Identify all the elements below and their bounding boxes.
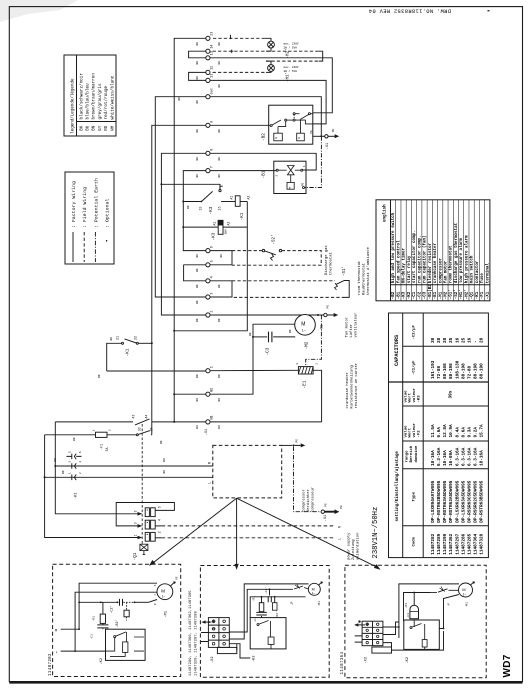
svg-text:fuse: fuse: [480, 273, 485, 284]
svg-text:88-198: 88-198: [461, 363, 466, 379]
svg-text:11487282: 11487282: [49, 653, 53, 676]
svg-text:BK: BK: [218, 84, 221, 88]
svg-text:18-16A: 18-16A: [431, 450, 436, 466]
svg-text:8.6A: 8.6A: [461, 427, 466, 438]
svg-text:72-88: 72-88: [467, 365, 472, 379]
svg-text:10-16A: 10-16A: [443, 450, 448, 466]
box3 motor M1: [459, 581, 476, 597]
wire N to compressor box: [55, 465, 213, 467]
svg-text:-R2': -R2': [115, 620, 119, 628]
wire N2 row: [174, 393, 206, 395]
svg-text:crankcase heater: crankcase heater: [433, 243, 438, 284]
svg-text:2: 2: [314, 363, 318, 365]
svg-text:2: 2: [157, 531, 161, 533]
box2 wiring: [229, 584, 308, 639]
PE earth run fan to E1 case: [306, 315, 322, 367]
svg-text:Code: Code: [412, 536, 417, 546]
svg-text:16-09A: 16-09A: [449, 450, 454, 466]
box3 terminal block X2: [362, 621, 391, 653]
svg-text:DP-LSXR94A97W095: DP-LSXR94A97W095: [431, 480, 436, 523]
svg-text:DP-RSSR63C5DW095: DP-RSSR63C5DW095: [467, 480, 472, 523]
svg-text:L: L: [338, 538, 342, 540]
svg-text:16: 16: [218, 207, 222, 211]
box2 lower bus wires: [229, 644, 250, 658]
arrow to detail box 1: [149, 498, 237, 566]
svg-text:DP-RSTR62B5DW095: DP-RSTR62B5DW095: [437, 480, 442, 523]
wire rows 6-5 right jumper V232: [210, 251, 232, 265]
supply line L dashed: [162, 537, 335, 539]
svg-text:compressor: compressor: [439, 258, 443, 284]
svg-text:7: 7: [211, 166, 215, 168]
svg-text:2: 2: [211, 310, 215, 312]
svg-text:thermostat d'ambiance: thermostat d'ambiance: [366, 246, 371, 295]
line legend entries text: [71, 178, 111, 228]
svg-text:L: L: [56, 650, 58, 654]
svg-text:terminal: terminal: [485, 263, 490, 284]
wire row 9 to B2 left pin: [210, 124, 270, 126]
svg-text:fan motor: fan motor: [443, 260, 448, 283]
svg-text:11487282: 11487282: [431, 533, 436, 554]
svg-text:P: P: [298, 137, 300, 140]
svg-text:-M1: -M1: [165, 611, 169, 617]
svg-text:BK: BK: [218, 174, 221, 178]
svg-text:range: range: [404, 450, 409, 463]
svg-text:N: N: [207, 462, 211, 464]
svg-text:high pressure alarm: high pressure alarm: [464, 235, 469, 283]
svg-text:start relay: start relay: [407, 255, 412, 283]
svg-text:BK: BK: [196, 254, 199, 258]
svg-text:BK: BK: [98, 374, 101, 378]
svg-text:3: 3: [68, 461, 72, 463]
box1 capacitor C1: [97, 623, 108, 629]
wire jumper 5-4: [184, 264, 206, 266]
svg-text:BU: BU: [218, 425, 221, 429]
svg-text:11: 11: [211, 74, 215, 78]
svg-text:4: 4: [78, 461, 82, 463]
svg-text:red/rot/rouge: red/rot/rouge: [104, 86, 109, 120]
svg-text:72-88: 72-88: [437, 365, 442, 379]
mechanical link dashed: [141, 424, 143, 544]
svg-text:238V1N~/50Hz: 238V1N~/50Hz: [372, 507, 380, 559]
svg-text:BK: BK: [196, 100, 199, 104]
wire row 8 to V161 down to row 2: [161, 153, 205, 315]
svg-text:: Potential Earth: : Potential Earth: [93, 178, 99, 228]
PE earth run compressor to X1: [294, 447, 321, 512]
box2 terminal block X2: [208, 618, 236, 654]
svg-text:-H2': -H2': [464, 289, 469, 299]
svg-text:-Q1: -Q1: [471, 291, 475, 299]
svg-text:12.8A: 12.8A: [443, 424, 448, 438]
svg-text:-E1: -E1: [434, 291, 438, 299]
box2 start relay K2: [250, 618, 286, 649]
tick mark row 23: [230, 35, 232, 39]
svg-text:-M2: -M2: [444, 291, 448, 299]
svg-text:2W / 5VA: 2W / 5VA: [284, 45, 298, 49]
svg-text:A2: A2: [246, 196, 250, 200]
svg-text:BK: BK: [196, 268, 199, 272]
detail box 2 outline: [200, 566, 329, 678]
svg-text:-K1: -K1: [240, 212, 245, 220]
svg-text:valeur: valeur: [412, 422, 417, 437]
svg-text:ON-delay timer: ON-delay timer: [402, 248, 407, 284]
svg-text:-K1: -K1: [476, 291, 480, 299]
plug contacts K1 pins 5/6 stub: [67, 454, 82, 460]
B2 internals: [270, 113, 313, 141]
X1 PE terminal at B2: [325, 135, 328, 138]
svg-text:valeur: valeur: [412, 387, 417, 402]
plug contact pins 1/2: [72, 475, 76, 481]
svg-text:-B2: -B2: [392, 291, 396, 299]
wire GNYE row to V155 down to row 3: [155, 97, 206, 297]
svg-text:2W / 5VA: 2W / 5VA: [284, 69, 298, 73]
svg-text:161-193: 161-193: [431, 360, 436, 379]
svg-text:BK: BK: [196, 157, 199, 161]
svg-text:A1: A1: [212, 222, 216, 226]
svg-text:BK: BK: [196, 300, 199, 304]
svg-text:GY: GY: [98, 125, 103, 131]
svg-text:room thermostat: room thermostat: [449, 245, 454, 283]
svg-text:-C1: -C1: [406, 613, 410, 619]
svg-text:BK: BK: [178, 97, 181, 101]
table data columns: [431, 337, 484, 554]
box1 motor M1: [157, 581, 176, 599]
svg-text:-Q1: -Q1: [133, 552, 138, 560]
svg-text:6.3-16A: 6.3-16A: [467, 447, 472, 466]
svg-text:-M1: -M1: [465, 602, 468, 608]
svg-text:6.3-16A: 6.3-16A: [437, 447, 442, 466]
svg-text:-B1: -B1: [397, 291, 401, 299]
supply line N dashed: [162, 525, 335, 527]
svg-text:11487285: 11487285: [467, 533, 472, 554]
legend entries: [391, 212, 490, 299]
relay contact K3 15/16: [183, 186, 235, 201]
svg-text:1: 1: [68, 472, 72, 474]
svg-text:11.5A: 11.5A: [431, 424, 436, 438]
svg-text:-R1: -R1: [251, 596, 255, 602]
X1 PE terminal at fan: [324, 313, 327, 316]
svg-text:3: 3: [134, 522, 138, 524]
wire jumper 14-13: [189, 51, 206, 58]
svg-text:-K1: -K1: [74, 493, 78, 499]
svg-text:4: 4: [157, 519, 161, 521]
svg-text:1~: 1~: [162, 594, 166, 598]
svg-text:fan speed control: fan speed control: [396, 240, 401, 283]
svg-text:bleeder resistor: bleeder resistor: [428, 243, 433, 284]
svg-text:1~: 1~: [312, 591, 316, 595]
svg-text:thermostat: thermostat: [329, 252, 334, 275]
svg-text:BN: BN: [218, 374, 221, 378]
svg-text:Bereich: Bereich: [409, 445, 414, 462]
box1 junction dots: [74, 601, 135, 652]
svg-text:BK: BK: [218, 157, 221, 161]
wire jumper 12-11: [189, 72, 206, 80]
svg-text:RD: RD: [104, 125, 109, 131]
svg-text:BK: BK: [218, 61, 221, 65]
svg-text:-X1: -X1: [326, 142, 330, 150]
line legend samples: [73, 232, 107, 262]
svg-text:PE: PE: [176, 576, 179, 580]
wire row 9 to V152 down to fuse line: [152, 125, 206, 435]
main switch Q1 input arrows: [138, 512, 143, 539]
svg-text:-C2: -C2: [418, 291, 422, 299]
svg-text:-C1: -C1: [90, 634, 93, 640]
svg-text:11487289: 11487289: [437, 533, 442, 554]
box3 start relay K2: [404, 620, 440, 649]
box3 X2 stub leads: [355, 636, 362, 642]
crankcase heater E1: [210, 367, 322, 422]
svg-text:3A: 3A: [105, 448, 109, 452]
svg-text:high and low pressure switch: high and low pressure switch: [391, 212, 396, 283]
svg-text:43: 43: [131, 415, 135, 419]
svg-text:28: 28: [437, 337, 442, 343]
svg-text:-B2: -B2: [262, 133, 267, 141]
wire row 7 to V183 down to row 6: [183, 171, 206, 251]
arrow to detail box 2: [235, 498, 239, 570]
svg-text:Raumthermostat: Raumthermostat: [361, 263, 366, 295]
svg-text:DP-LSXR63A5DW095: DP-LSXR63A5DW095: [461, 480, 466, 523]
legend column separators: [396, 200, 485, 301]
B1 internals: [276, 166, 304, 190]
wire N1 row left: [174, 421, 206, 423]
svg-text:alimentation: alimentation: [355, 533, 360, 560]
terminal number labels: [205, 32, 215, 436]
svg-text:-X1: -X1: [486, 291, 490, 299]
svg-text:BK: BK: [249, 332, 252, 336]
svg-text:BU: BU: [196, 425, 199, 429]
svg-text:12: 12: [211, 66, 215, 70]
svg-text:max. 230V: max. 230V: [284, 43, 299, 46]
svg-text:5: 5: [211, 260, 215, 262]
svg-text:N2: N2: [211, 388, 215, 392]
svg-text:-X1: -X1: [205, 428, 209, 436]
svg-text:1: 1: [295, 363, 299, 365]
svg-text:-F: -F: [290, 602, 294, 606]
box1 wiring: [61, 583, 158, 651]
svg-text:-B1(B2: -B1(B2: [428, 284, 433, 300]
svg-text:BU: BU: [196, 398, 199, 402]
svg-text:DP-LSXR62B5DW095: DP-LSXR62B5DW095: [455, 480, 460, 523]
svg-text:A2: A2: [227, 222, 231, 226]
contactor K1 contact 21/22: [107, 339, 152, 371]
svg-text:6: 6: [211, 246, 215, 248]
svg-text:1: 1: [92, 429, 96, 431]
svg-text:BK: BK: [289, 329, 292, 333]
svg-text:-K3: -K3: [417, 395, 421, 403]
signal lamp H2': [265, 38, 275, 51]
svg-text:-C1/µF: -C1/µF: [412, 360, 417, 375]
svg-text:PE: PE: [310, 130, 313, 134]
svg-text:108-130: 108-130: [455, 360, 460, 379]
box2 X2 stub leads: [201, 633, 208, 642]
svg-text:DRW. NO.118R8352 REV 04: DRW. NO.118R8352 REV 04: [369, 8, 451, 14]
svg-text:-C3: -C3: [424, 291, 428, 299]
svg-text:-F1: -F1: [481, 291, 485, 299]
svg-text:11487328: 11487328: [479, 533, 484, 554]
svg-text:BK: BK: [110, 337, 113, 341]
svg-text:BK: BK: [187, 205, 190, 209]
component legend table: [376, 200, 490, 301]
box3 wiring: [383, 584, 459, 650]
svg-text:11487364: 11487364: [473, 533, 478, 554]
svg-text:88-198: 88-198: [449, 363, 454, 379]
svg-text:-K2: -K2: [406, 657, 410, 663]
svg-text:: Optional: : Optional: [105, 199, 111, 228]
svg-text:-: -: [473, 340, 478, 343]
svg-text:9.3A: 9.3A: [467, 427, 472, 438]
fan speed control B1 box: [274, 161, 306, 193]
svg-text:1: 1: [302, 165, 306, 167]
svg-text:5: 5: [134, 510, 138, 512]
svg-text:WD7: WD7: [502, 654, 513, 677]
svg-text:16: 16: [455, 337, 460, 343]
svg-text:1~: 1~: [302, 329, 306, 333]
pressure switch B2 box: [269, 105, 313, 144]
svg-text:BK: BK: [196, 76, 199, 80]
svg-text:PE: PE: [324, 503, 328, 507]
svg-text:value: value: [403, 390, 408, 403]
wire row 2 to fan PE node: [210, 314, 324, 316]
svg-text:BK: BK: [79, 125, 84, 131]
box2 motor M1: [308, 581, 323, 595]
svg-text:BK: BK: [220, 254, 223, 258]
wire L to compressor box: [45, 476, 213, 478]
svg-text:P: P: [276, 137, 278, 140]
svg-text:power supply: power supply: [346, 532, 351, 560]
svg-text:39s: 39s: [449, 390, 454, 398]
svg-text:BK: BK: [62, 470, 65, 474]
svg-text:13: 13: [211, 51, 215, 55]
svg-text:domaine: domaine: [414, 445, 419, 462]
svg-text:BN: BN: [196, 374, 199, 378]
wire row 13 to B2: [210, 58, 332, 113]
svg-text:-X1: -X1: [324, 514, 328, 522]
detail box 1 outline: [53, 564, 181, 676]
svg-text:CAPACITORS: CAPACITORS: [394, 335, 400, 366]
svg-text:low pressure alarm: low pressure alarm: [459, 237, 464, 283]
timer coil K3: [183, 220, 247, 234]
svg-text:88-108: 88-108: [443, 363, 448, 379]
plug contact pins 3/4: [72, 463, 76, 469]
svg-text:15.7A: 15.7A: [479, 424, 484, 438]
svg-text:N: N: [338, 526, 342, 528]
svg-text:ventilateur: ventilateur: [354, 312, 359, 337]
svg-text:-E1: -E1: [303, 380, 308, 388]
svg-text:white/weiss/blanc: white/weiss/blanc: [110, 75, 115, 119]
svg-text:PE: PE: [331, 128, 335, 132]
Q1 trip unit: [140, 544, 148, 554]
svg-text:: Field Wiring: : Field Wiring: [82, 187, 88, 228]
svg-text:GNYE: GNYE: [211, 88, 214, 95]
svg-text:WH: WH: [110, 125, 115, 131]
thermostat S2' field circuit: [232, 251, 321, 266]
svg-text:compresseur: compresseur: [311, 487, 316, 512]
junction dots feeders: [54, 465, 56, 467]
svg-text:11487299: 11487299: [443, 533, 448, 554]
compressor PE branch: [282, 444, 293, 446]
svg-text:14: 14: [211, 45, 215, 49]
svg-text:15: 15: [199, 207, 203, 211]
svg-text:brown/braun/marron: brown/braun/marron: [92, 73, 97, 120]
svg-text:P: P: [289, 187, 291, 190]
svg-text:9: 9: [211, 121, 215, 123]
svg-text:1~: 1~: [463, 592, 467, 596]
svg-text:setting/Einstellung/ajustage: setting/Einstellung/ajustage: [395, 451, 400, 522]
svg-text:BK: BK: [160, 440, 163, 444]
svg-text:-R1: -R1: [404, 603, 408, 609]
fan motor M2: [295, 315, 316, 336]
svg-text:PE: PE: [295, 439, 299, 443]
wire N1 row right to E1 drop: [210, 421, 322, 423]
box2 capacitor C1: [256, 612, 267, 615]
svg-text:6: 6: [157, 506, 161, 508]
wire row 7 to B1 pin 2: [210, 170, 276, 172]
svg-text:start capacitor comp.: start capacitor comp.: [412, 230, 417, 283]
svg-text:black/schwarz/noir: black/schwarz/noir: [79, 73, 84, 120]
svg-text:-C3: -C3: [266, 347, 271, 355]
svg-text:BU: BU: [218, 398, 221, 402]
svg-text:Kurbelwannenheizung: Kurbelwannenheizung: [350, 365, 355, 408]
svg-text:1: 1: [134, 534, 138, 536]
box3 PTC R1 cylinder: [410, 605, 419, 619]
svg-text:6.3-16A: 6.3-16A: [473, 447, 478, 466]
svg-text:-X2: -X2: [211, 657, 215, 663]
box2 X2 arrow lead: [203, 621, 212, 623]
feeder vertical V56 N1 to Q1: [55, 422, 137, 514]
svg-text:44: 44: [145, 415, 149, 419]
wire row 8 to B1 pin 1: [210, 153, 316, 170]
svg-text:main switch: main switch: [470, 255, 475, 283]
svg-text:-S2': -S2': [454, 289, 459, 299]
svg-text:-C2': -C2': [264, 587, 268, 595]
svg-text:room thermostat: room thermostat: [357, 261, 362, 295]
signal lamp H1': [266, 61, 274, 72]
svg-text:3: 3: [211, 292, 215, 294]
svg-text:2: 2: [275, 175, 279, 177]
thermostat S1' field circuit: [232, 281, 345, 298]
svg-text:BK: BK: [196, 61, 199, 65]
svg-text:1: 1: [211, 366, 215, 368]
svg-text:-X1: -X1: [320, 324, 324, 332]
svg-text:16: 16: [467, 337, 472, 343]
svg-text:Lüfter: Lüfter: [349, 324, 354, 338]
svg-text:BK: BK: [196, 129, 199, 133]
box3 overload contact F: [430, 587, 459, 593]
B2 PE pin to X1 PE: [313, 135, 325, 137]
svg-text:blue/blau/bleu: blue/blau/bleu: [86, 83, 91, 120]
colour code legend box: [64, 55, 116, 136]
svg-text:6: 6: [78, 451, 82, 453]
svg-text:10.9A: 10.9A: [449, 424, 454, 438]
svg-text:BK: BK: [196, 318, 199, 322]
arrow to detail box 3: [237, 498, 381, 570]
svg-text:-F: -F: [446, 603, 450, 607]
svg-text:4: 4: [211, 276, 215, 278]
svg-text:compressor: compressor: [302, 489, 307, 512]
S1' contact: [335, 281, 350, 298]
svg-text:-B1: -B1: [262, 170, 267, 178]
svg-text:Wert: Wert: [408, 392, 413, 402]
svg-text:-H1': -H1': [459, 289, 464, 299]
box1 PTC R1: [100, 614, 105, 623]
svg-text:Type: Type: [413, 491, 417, 501]
connector bracket rows 14-13: [319, 51, 323, 61]
svg-text:Verdichter: Verdichter: [306, 489, 311, 512]
fuse F1 line: [45, 431, 152, 438]
svg-text:25: 25: [449, 337, 454, 343]
svg-text:Discharge gas: Discharge gas: [324, 245, 329, 275]
svg-text:-M1: -M1: [318, 601, 321, 607]
svg-text:-X2: -X2: [364, 657, 368, 663]
